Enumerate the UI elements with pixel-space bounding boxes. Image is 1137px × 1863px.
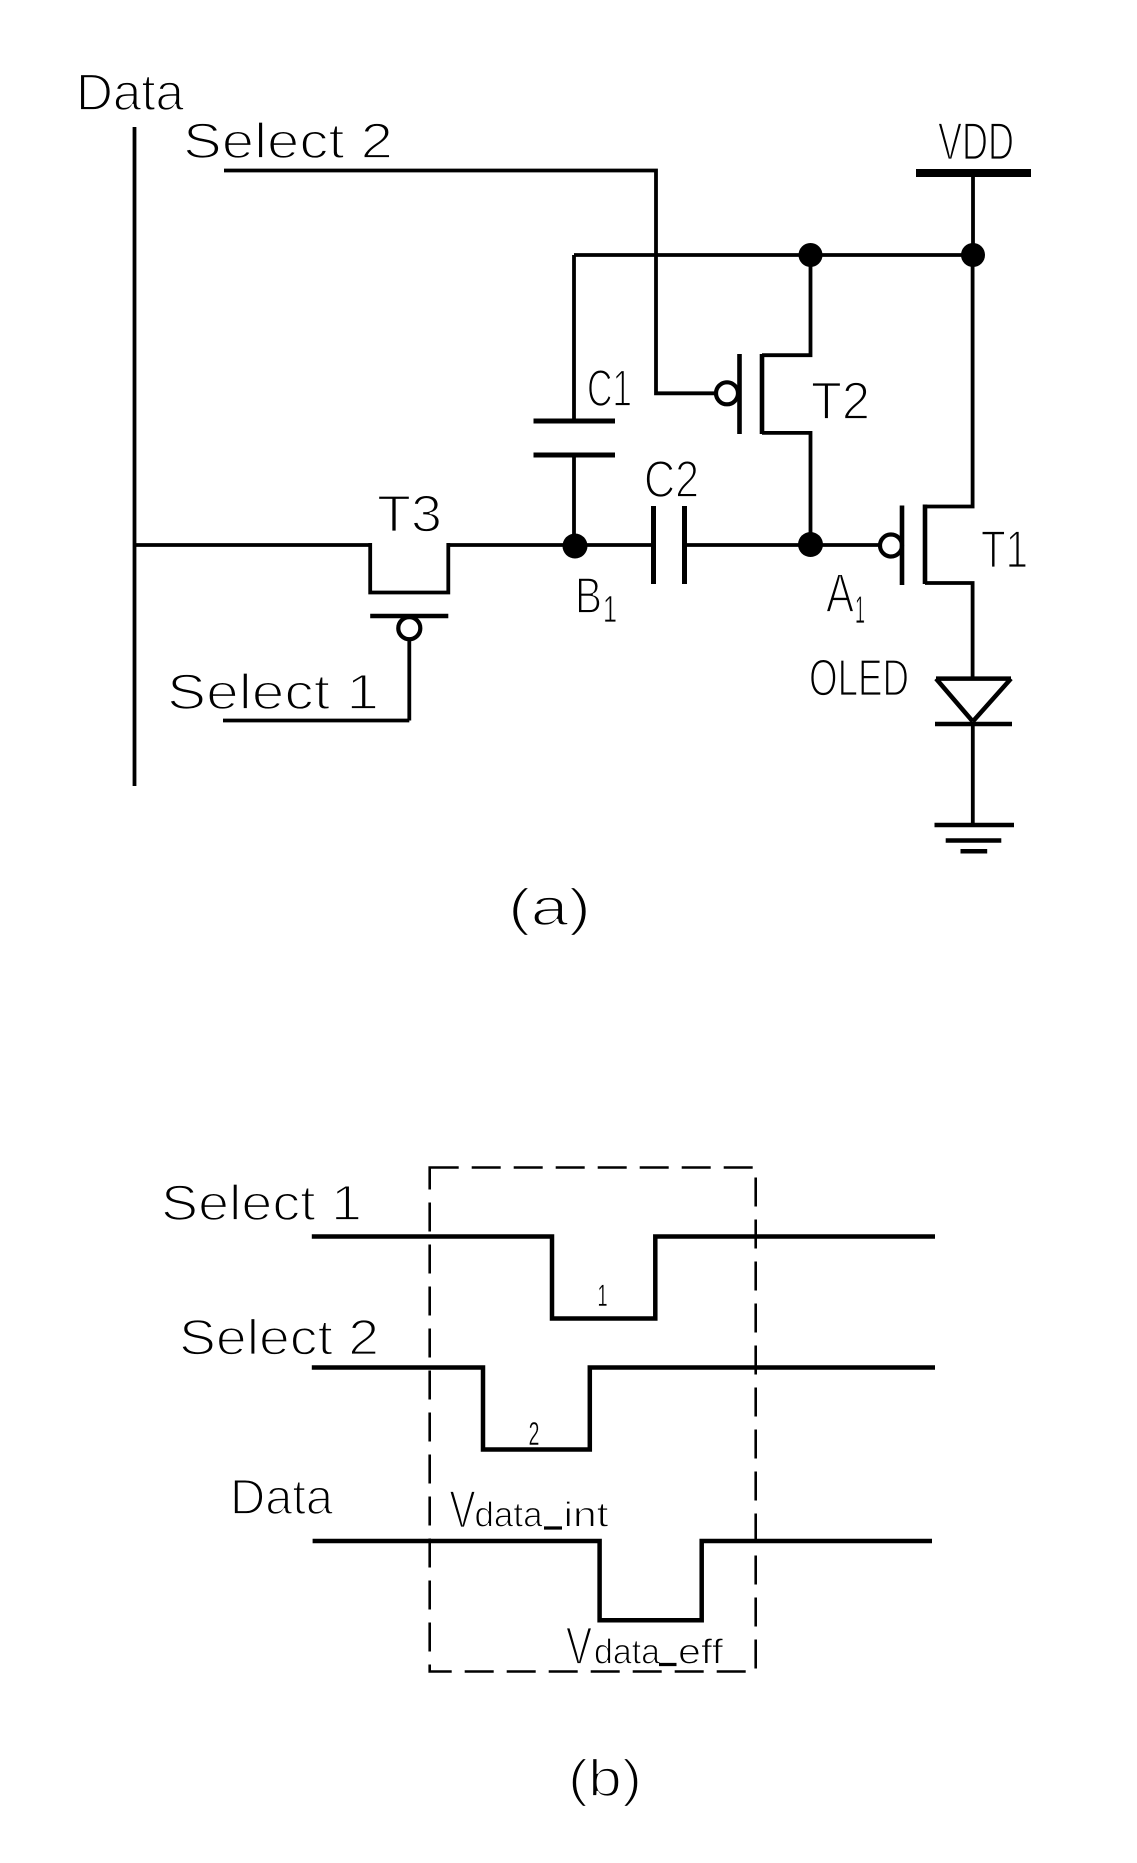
node A1 dot: [798, 532, 823, 557]
capacitor C1 top plate: [534, 419, 616, 424]
transistor T1 channel bar: [923, 505, 928, 585]
transistor T2 source arm: [762, 433, 811, 545]
svg-text:data: data: [594, 1633, 661, 1672]
capacitor C1 top lead: [572, 255, 576, 419]
waveform Select 2: [312, 1368, 935, 1450]
svg-text:T1: T1: [981, 521, 1028, 580]
wire Select 2 to T2 gate: [224, 171, 717, 394]
capacitor C2 right plate: [682, 506, 687, 584]
svg-text:OLED: OLED: [809, 650, 909, 708]
transistor T3 channel trench: [370, 543, 448, 593]
svg-text:C1: C1: [587, 360, 632, 418]
svg-text:(a): (a): [508, 879, 591, 937]
wire Select 1: [223, 719, 409, 723]
transistor T2 drain arm: [762, 255, 811, 355]
transistor T3 gate circle: [398, 617, 420, 639]
junction dot rail-T2: [799, 243, 823, 267]
svg-text:V: V: [450, 1481, 476, 1540]
wire Data to T3: [135, 543, 371, 547]
svg-text:T3: T3: [377, 486, 442, 544]
svg-text:Select 2: Select 2: [179, 1310, 379, 1366]
capacitor C1 bottom lead: [572, 457, 576, 545]
OLED anode bar and triangle: [936, 679, 1011, 722]
svg-text:1: 1: [598, 1278, 608, 1313]
ground bar 3: [961, 849, 988, 854]
waveform Select 1: [312, 1237, 935, 1319]
transistor T3 gate lead: [407, 639, 411, 721]
svg-text:V: V: [566, 1617, 592, 1676]
wire OLED to ground: [971, 724, 975, 825]
transistor T1 gate bar: [900, 506, 905, 586]
node B1 dot: [563, 534, 588, 559]
svg-text:VDD: VDD: [938, 113, 1014, 172]
svg-text:T2: T2: [811, 372, 870, 431]
wire top rail: [574, 253, 973, 257]
svg-text:2: 2: [529, 1415, 540, 1452]
ground bar 2: [946, 838, 1002, 843]
svg-text:Data: Data: [230, 1469, 333, 1525]
transistor T3 gate bar: [370, 614, 448, 619]
svg-text:eff: eff: [678, 1633, 723, 1672]
transistor T1 gate circle: [880, 535, 902, 557]
svg-text:Select 1: Select 1: [161, 1175, 362, 1231]
svg-text:1: 1: [855, 589, 865, 632]
svg-text:C2: C2: [644, 451, 699, 509]
svg-text:Select 1: Select 1: [167, 664, 379, 720]
transistor T2 gate circle: [716, 382, 738, 404]
wire T3 to C2: [448, 543, 651, 547]
junction dot rail-VDD: [961, 243, 985, 267]
svg-text:Data: Data: [76, 64, 184, 122]
svg-text:1: 1: [603, 589, 617, 631]
transistor T1 source arm: [925, 583, 973, 679]
OLED cathode bar: [935, 722, 1012, 727]
transistor T2 channel bar: [760, 354, 765, 434]
transistor T1 drain arm: [925, 255, 973, 507]
svg-text:B: B: [575, 567, 602, 624]
transistor T2 gate bar: [737, 354, 742, 434]
svg-text:Select 2: Select 2: [183, 113, 393, 169]
wire Data vertical: [133, 127, 137, 786]
waveform Data: [313, 1541, 932, 1620]
svg-text:A: A: [826, 562, 854, 624]
wire C2 to T1 gate: [686, 543, 881, 547]
svg-text:(b): (b): [568, 1750, 642, 1808]
capacitor C2 left plate: [651, 506, 656, 584]
ground bar 1: [935, 823, 1015, 828]
capacitor C1 bottom plate: [534, 453, 616, 458]
dashed box: [430, 1168, 756, 1672]
power VDD bar: [916, 169, 1031, 177]
wire VDD down: [971, 177, 975, 255]
svg-text:int: int: [564, 1496, 609, 1535]
svg-text:data: data: [475, 1496, 544, 1535]
